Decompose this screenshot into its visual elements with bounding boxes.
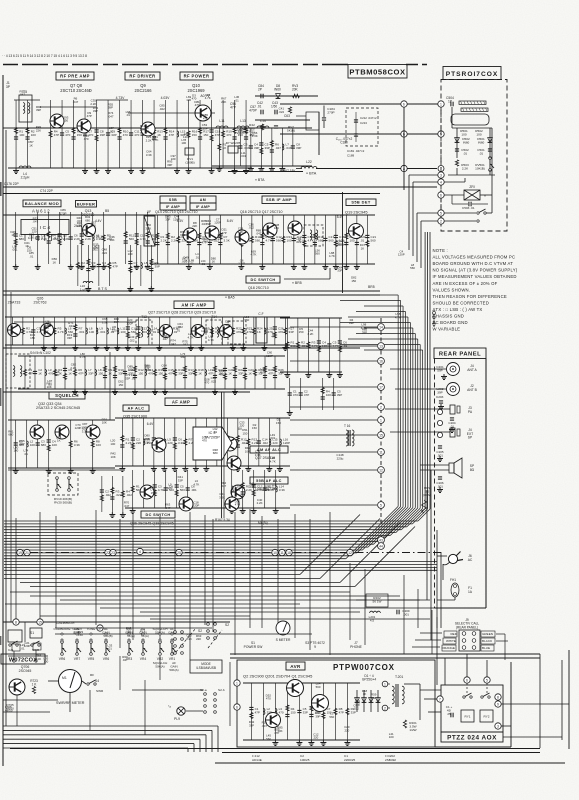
svg-text:.047: .047 [108,114,114,118]
wire bus elbow 10 [368,507,408,547]
block label SSB IF AMP 1 [160,196,186,203]
wire bus feeder 9 [340,322,410,324]
svg-text:560: 560 [244,318,249,322]
wire bus lower 2 [4,578,320,580]
svg-text:.047: .047 [201,222,207,226]
svg-text:1: 1 [380,418,382,422]
wire x441 col [440,107,442,172]
svg-text:BLACK: BLACK [482,639,493,643]
svg-text:(REAR PANEL): (REAR PANEL) [456,625,478,629]
svg-text:150: 150 [118,383,123,387]
value labels zone 8 [249,682,394,741]
svg-text:39P: 39P [349,321,354,325]
svg-text:15: 15 [38,620,42,624]
wire edge pin feed y387 [290,386,377,388]
transistor Q33 [55,425,69,439]
svg-text:39P: 39P [36,108,41,112]
value labels zone 9 [93,97,285,145]
value labels zone 6 [8,417,281,463]
transistor Q2 [266,713,281,728]
svg-text:560: 560 [180,488,185,492]
wire ptsr pin run 3 [417,212,438,214]
svg-text:S5B DET: S5B DET [351,200,370,205]
svg-text:4.7K: 4.7K [329,254,335,258]
svg-text:560: 560 [316,685,321,689]
potentiometer VR3 [128,641,131,644]
svg-text:S2: S2 [198,629,202,633]
transistor Q15b [235,230,249,244]
svg-text:3.3K: 3.3K [224,238,230,242]
wire edge pin feed y420 [290,419,377,421]
bus junction extra [137,548,143,554]
wire bus feeder 5 [340,344,420,346]
pin circle 3 [438,172,444,178]
svg-text:VALUES SHOWN.: VALUES SHOWN. [433,287,471,292]
svg-text:2: 2 [384,706,386,710]
transistor Q31 [223,437,237,451]
wire bus line 14 [4,558,346,560]
svg-text:22K: 22K [36,128,41,132]
wire avr top rail [230,653,540,655]
svg-text:.022: .022 [210,379,216,383]
svg-text:220: 220 [235,488,240,492]
module label PTSR017COX [443,67,501,80]
svg-text:10K(B): 10K(B) [475,166,485,170]
svg-text:470: 470 [266,697,271,701]
wire bus vertical 9 [409,323,411,508]
svg-text:100: 100 [43,660,48,664]
wire meter area [132,689,203,691]
transistor Q17 [288,221,302,235]
svg-text:» BTA: » BTA [306,172,317,176]
wire ac feed [437,555,447,557]
junction a L22 [401,165,407,171]
squelch aux lower [287,378,343,416]
transistor Q39 [179,497,193,511]
svg-text:C63: C63 [284,114,290,118]
wire drop 20 [364,569,366,645]
svg-text:6: 6 [440,193,442,197]
wire bus elbow 1 [418,509,430,521]
wire drop 11 [212,519,214,632]
svg-text:.022: .022 [129,338,135,342]
svg-text:47P: 47P [230,106,237,110]
wire lower bus 4 [5,603,300,605]
svg-text:AC: AC [468,558,473,562]
svg-text:.022: .022 [262,441,268,445]
svg-text:120P: 120P [126,321,133,325]
svg-text:BALANCE MOD: BALANCE MOD [25,201,59,206]
svg-text:1: 1 [440,102,442,106]
svg-text:4.4V: 4.4V [95,219,102,223]
wire bus vertical 14 [397,295,399,506]
svg-text:16: 16 [379,359,383,363]
capacitor C203 [439,400,443,402]
wire bus lower 1 [4,574,300,576]
svg-text:560: 560 [255,238,260,242]
block label SSB DET [346,199,376,206]
svg-text:560: 560 [129,237,134,241]
svg-text:1K: 1K [11,233,15,237]
svg-text:220: 220 [344,728,349,732]
bus junction 21 [24,549,30,555]
svg-text:VR4: VR4 [140,657,147,661]
svg-text:33P: 33P [303,710,308,714]
svg-text:DC SWITCH: DC SWITCH [145,513,170,517]
capacitor C501 [488,148,492,150]
svg-text:.047: .047 [275,146,281,150]
svg-text:M1: M1 [62,676,67,680]
wire to PTSR pin1 [280,103,438,105]
svg-text:BUFFER: BUFFER [77,201,96,206]
svg-text:THEN REASON FOR DIFFERENCE: THEN REASON FOR DIFFERENCE [433,294,507,299]
wire controls row2 [55,627,212,629]
svg-text:120P: 120P [201,126,208,130]
module label REAR PANEL [434,348,486,359]
svg-text:VR7: VR7 [74,657,81,661]
svg-text:17: 17 [379,385,383,389]
wire x441 col2 [440,185,442,192]
svg-text:BOARD GROUND WITH D.C VTVM: BOARD GROUND WITH D.C VTVM AT [433,261,514,266]
value labels zone 3 [180,218,365,266]
wire drop 12 [234,512,236,655]
svg-text:470: 470 [88,133,93,137]
svg-text:1K: 1K [53,260,57,264]
bus junction 18 [286,549,292,555]
wire rf partial rail b [128,112,215,114]
wire bus feeder 14 [348,294,398,296]
wire bus line 17 [4,566,437,568]
svg-text:33P: 33P [67,336,72,340]
avr components [243,683,360,746]
coil L22 [301,167,317,169]
svg-text:1: 1 [236,681,238,685]
svg-text:RF PRE AMP: RF PRE AMP [60,74,90,79]
svg-text:470: 470 [195,103,200,107]
module box REAR PANEL border [434,359,436,609]
wire bus feeder 8 [364,327,413,329]
diode D7 [228,146,238,153]
svg-text:.022: .022 [353,707,359,711]
wire bus elbow 2 [412,509,427,524]
meter S METER [276,621,290,635]
svg-text:.01: .01 [190,262,194,266]
wire drop 10 [204,515,206,625]
wire meter leads [48,680,58,682]
svg-text:680: 680 [249,126,254,130]
svg-text:.022: .022 [159,107,165,111]
wire bus elbow 12 [357,507,403,553]
svg-text:33P: 33P [178,371,183,375]
svg-text:ARE IN EXCESS OF ± 20% OF: ARE IN EXCESS OF ± 20% OF [433,281,498,286]
wire top border dash left [3,64,348,66]
svg-text:47P: 47P [268,371,273,375]
svg-text:15: 15 [379,433,383,437]
transistor Q26 [41,324,54,337]
svg-text:39P: 39P [265,146,270,150]
svg-text:5: 5 [486,678,488,682]
svg-text:50K(B): 50K(B) [103,634,112,638]
svg-text:10K: 10K [36,657,41,661]
svg-text:.001: .001 [301,344,307,348]
svg-text:.01: .01 [24,452,28,456]
af lower components [125,470,290,514]
wire bottom bus 5 [3,743,194,745]
wire extsp feed [390,431,444,433]
wire ptsr pin run 4 [421,220,438,222]
junction c1 [13,619,19,625]
edge connector pin 11 [378,449,385,456]
svg-text:ZRI: ZRI [469,185,474,189]
wire controls row3 [55,633,312,635]
svg-text:.001: .001 [12,247,18,251]
svg-text:3.3K: 3.3K [219,495,225,499]
svg-text:Q19 2SC945: Q19 2SC945 [345,210,368,215]
svg-text:.022: .022 [296,240,302,244]
svg-text:10K: 10K [245,449,250,453]
wire RF signal path [14,127,210,129]
wire bus vertical 4 [422,350,424,508]
wire bus vertical 7 [414,334,416,508]
capacitor C205 [438,445,442,447]
wire bus line 9 [4,543,374,545]
wire bus feeder 10 [348,316,408,318]
svg-text:100: 100 [461,132,466,136]
wire lower bus 1 [10,591,350,593]
relay RY2 [480,710,493,722]
svg-text:(100B): (100B) [185,160,194,164]
svg-text:L13: L13 [240,119,246,123]
jack J4 ANT A [447,363,460,376]
wire band divider 1 [3,186,437,188]
block label BUFFER [76,201,97,208]
svg-text:100: 100 [128,252,133,256]
svg-text:22K: 22K [221,100,226,104]
svg-text:BR5: BR5 [368,285,375,289]
svg-text:8.4V: 8.4V [227,219,234,223]
svg-text:150: 150 [29,235,34,239]
svg-text:IF AMP: IF AMP [166,205,181,209]
svg-text:.001: .001 [100,330,106,334]
svg-text:AF ALC: AF ALC [128,406,145,411]
svg-text:.047: .047 [162,337,168,341]
svg-text:C213: C213 [360,121,367,125]
svg-text:.047: .047 [170,342,176,346]
svg-text:100: 100 [287,238,292,242]
svg-text:470: 470 [92,264,97,268]
svg-text:.047: .047 [256,232,262,236]
svg-text:12: 12 [379,468,383,472]
svg-text:120P: 120P [173,218,180,222]
svg-text:4.7K: 4.7K [395,315,401,319]
svg-text:PHONE: PHONE [350,645,363,649]
svg-text:33P: 33P [188,371,193,375]
wire drop 23 [431,610,433,654]
svg-text:4.7K: 4.7K [58,330,64,334]
svg-text:T13: T13 [141,315,147,319]
block label RF POWER [180,72,213,80]
filter XF [144,216,155,246]
IC U4 AN612 [21,220,69,235]
wire rf partial rail a [40,106,96,108]
value labels zone 10 [299,249,416,335]
svg-text:470: 470 [148,371,153,375]
block label AVR [286,662,305,670]
svg-text:2.2K: 2.2K [257,501,263,505]
svg-text:100: 100 [89,330,94,334]
svg-text:150: 150 [128,368,133,372]
wire ptzz left [420,689,441,691]
svg-text:AD14E: AD14E [252,758,262,762]
svg-text:560: 560 [329,715,334,719]
block label SSB AF ALC [250,477,288,484]
svg-text:5K(B): 5K(B) [287,128,295,132]
switch ptzz dash [466,683,468,694]
svg-text:20K: 20K [292,88,299,92]
svg-text:3.3K: 3.3K [102,320,108,324]
wire squelch v110 [109,352,111,420]
svg-text:22K: 22K [196,637,201,641]
svg-text:.047: .047 [124,504,130,508]
wire drop 4 [95,510,97,625]
svg-text:33P: 33P [118,371,123,375]
svg-text:10K: 10K [102,421,107,425]
svg-text:43: 43 [379,538,383,542]
edge connector pin 15 [378,432,385,439]
capacitor C204 [450,417,454,419]
wire pin2 [444,220,476,222]
svg-text:AVR: AVR [290,664,301,669]
svg-text:T14: T14 [211,315,217,319]
diode D502 [455,138,460,143]
svg-text:.047: .047 [261,724,267,728]
svg-text:150: 150 [243,431,248,435]
svg-text:100: 100 [144,129,149,133]
svg-text:680: 680 [180,233,185,237]
svg-text:C.F: C.F [258,312,263,316]
wire am band top1 [3,290,380,292]
svg-text:.047: .047 [182,342,188,346]
svg-text:22K: 22K [146,368,151,372]
wire edge pin feed y361 [290,360,377,362]
svg-text:2SA733 2 SC945 2SC945: 2SA733 2 SC945 2SC945 [36,406,80,410]
svg-text:RV20 500(B): RV20 500(B) [54,501,72,505]
svg-text:120P: 120P [201,329,208,333]
svg-text:VR5: VR5 [88,657,95,661]
wire antA feed [390,368,446,370]
svg-text:22K: 22K [265,488,270,492]
svg-text:100: 100 [121,330,126,334]
connector J9 table [459,630,480,651]
wire edge connector column [380,318,382,525]
svg-text:8Ω: 8Ω [470,468,475,472]
svg-text:.022: .022 [105,493,111,497]
svg-text:.047: .047 [68,324,74,328]
svg-text:SWR/RF METER: SWR/RF METER [56,701,85,705]
wire pa feed [385,408,444,410]
svg-text:680: 680 [41,443,46,447]
potentiometer VR6 [61,641,64,644]
svg-text:D7 W2205: D7 W2205 [226,141,241,145]
wire bus line 1 [4,520,418,522]
wire control feed [3,621,230,623]
potentiometer VR5 [90,641,93,644]
wire bus elbow 6 [390,508,418,536]
svg-text:150: 150 [78,633,83,637]
svg-text:CHASSIS GND: CHASSIS GND [433,314,464,319]
svg-text:47P: 47P [78,371,83,375]
svg-text:560: 560 [291,344,296,348]
wire lower bus 5 [100,607,455,609]
edge connector pin 5 [378,502,385,509]
svg-text:2SB492: 2SB492 [385,758,396,762]
bus junction 12 [347,549,353,555]
svg-text:Q16 2SC710 Q17 2SC710: Q16 2SC710 Q17 2SC710 [240,210,283,214]
svg-text:RY1: RY1 [465,715,471,719]
wire edge pin feed y327 [290,326,377,328]
svg-text:2.2μH: 2.2μH [21,176,30,180]
svg-text:AM IF AMP: AM IF AMP [181,302,206,307]
wire bus line 10 [4,546,368,548]
svg-text:°×: °× [168,705,171,709]
svg-text:.022: .022 [177,325,183,329]
svg-text:560: 560 [410,266,415,270]
svg-text:4.7K: 4.7K [80,355,86,359]
switch S2 contacts b [207,623,210,626]
svg-text:220: 220 [218,236,223,240]
jack J3 PA [450,405,455,414]
svg-text:SSB IF AMP: SSB IF AMP [266,197,292,202]
svg-text:2.2K: 2.2K [257,488,263,492]
wire bottom bus 6 [3,747,188,749]
svg-text:RF: RF [90,673,94,677]
svg-text:.01: .01 [48,382,52,386]
svg-text:.047: .047 [144,264,150,268]
svg-text:.047: .047 [32,220,38,224]
svg-text:2SA733: 2SA733 [8,301,21,305]
svg-text:47P: 47P [247,330,252,334]
svg-text:Q27 2SC710 Q28 2SC710 Q2: Q27 2SC710 Q28 2SC710 Q29 2SC710 [148,311,216,315]
note pcb gnd glyph [433,320,435,324]
wire ptsr pin run 2 [413,181,438,183]
transistor Q37 [227,456,241,470]
svg-text:55B AF ALC: 55B AF ALC [256,479,282,483]
wire left col c [10,292,12,622]
svg-text:.001: .001 [241,154,247,158]
svg-text:47P: 47P [339,710,344,714]
svg-text:100: 100 [322,344,327,348]
svg-text:.047: .047 [122,658,128,662]
svg-text:4.7K: 4.7K [250,253,256,257]
pin circle 6 [438,192,444,198]
svg-text:3.3K: 3.3K [252,134,258,138]
wire fuse feed [437,599,455,601]
wire bus vertical 13 [400,301,402,507]
svg-text:150: 150 [276,421,281,425]
svg-text:150: 150 [299,330,304,334]
svg-text:4.7K: 4.7K [140,237,146,241]
bus junction 10 [272,549,278,555]
svg-text:1K: 1K [198,371,202,375]
diode row D1 [356,690,358,712]
svg-text:9: 9 [314,645,316,649]
transistor Q1 [312,695,329,712]
wire ssb rail left [3,214,150,216]
wire bus elbow 14 [346,506,398,558]
svg-text:2.2K: 2.2K [63,237,69,241]
svg-text:.01: .01 [463,151,468,155]
squelch aux components [280,318,348,378]
